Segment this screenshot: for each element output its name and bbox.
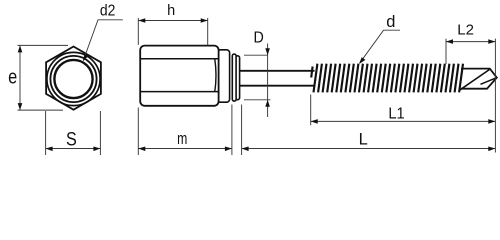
L2 arrowheads (446, 39, 495, 44)
D arrowheads (265, 48, 270, 107)
e arrowheads (18, 45, 23, 110)
dimension h: lines (138, 18, 207, 46)
svg-text:L: L (359, 131, 368, 149)
thread hole outer circle (50, 56, 96, 102)
washer plate 1 (left) (232, 54, 236, 101)
dimension L1: lines (311, 95, 496, 126)
dimension L2: lines (446, 39, 495, 153)
nut right end face arc (215, 59, 216, 92)
dimension L: lines (242, 105, 496, 156)
hex nut front view: hexagon (46, 47, 101, 110)
d2 leader arrowhead (83, 54, 89, 61)
collar behind coupling nut end (217, 50, 230, 102)
svg-text:L1: L1 (388, 105, 404, 123)
svg-text:m: m (177, 130, 187, 148)
svg-text:h: h (167, 3, 175, 19)
svg-text:S: S (66, 128, 77, 150)
dimension D: lines (244, 44, 271, 118)
svg-text:d: d (386, 13, 395, 31)
drill point tip edge line (481, 78, 497, 85)
dimension S: ext lines and dim line (46, 111, 101, 155)
h arrowheads (138, 18, 207, 23)
chamfer circle (47, 52, 100, 105)
svg-text:D: D (253, 30, 264, 47)
drill point pilot body (461, 69, 497, 89)
nut facet line lower (141, 91, 218, 93)
svg-text:d2: d2 (100, 3, 116, 20)
washer plate 2 (right) (235, 56, 240, 100)
nut facet line upper (141, 58, 218, 60)
shank (screw unthreaded shaft) (236, 71, 315, 86)
m arrowheads (138, 147, 232, 152)
d leader arrowhead (359, 57, 365, 64)
S arrowheads (46, 147, 101, 152)
svg-text:e: e (8, 65, 17, 88)
dimension e: dim line with arrows (18, 45, 69, 110)
dimension m: lines (138, 105, 232, 156)
thread (screw thread hatch strokes) (311, 64, 463, 93)
thread hole inner circle (54, 60, 92, 98)
L1 arrowheads (311, 119, 496, 124)
L arrowheads (242, 147, 496, 152)
drill point flute line (460, 70, 490, 91)
coupling nut body (side view) (140, 46, 218, 106)
svg-text:L2: L2 (457, 22, 474, 39)
